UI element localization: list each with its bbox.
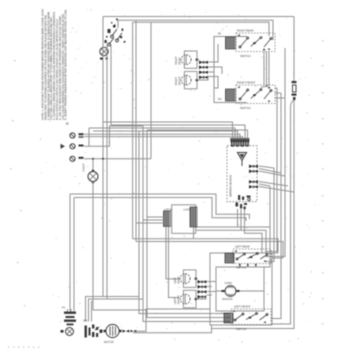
plug stem — [241, 161, 243, 167]
wire right bus 4 — [265, 168, 274, 262]
wire bundle 4 — [143, 126, 231, 322]
element lamp left front — [180, 290, 197, 308]
wire cn4 out 2 — [207, 286, 212, 288]
svg-text:LOCK: LOCK — [184, 208, 191, 212]
wire cn1 out 3 — [209, 71, 215, 73]
wire bundle h1 drop — [88, 128, 90, 146]
svg-text:P1: P1 — [62, 306, 66, 310]
junction dot — [263, 49, 265, 51]
wire asm2 link 2 — [275, 92, 281, 94]
wire stack feed b — [70, 309, 72, 312]
element coil right front — [226, 89, 236, 101]
fuse link F1 — [292, 81, 297, 100]
wire riser — [110, 44, 112, 125]
wire lamp link 3 — [196, 278, 198, 280]
infinite switch S3 left rear — [233, 249, 271, 264]
wire lamp link 2 — [197, 76, 208, 80]
svg-text:SWITCH: SWITCH — [240, 106, 251, 110]
wire L2 riser — [150, 22, 152, 159]
junction dot — [268, 87, 270, 89]
indicator lamp DS2 — [61, 328, 74, 336]
wire cn1 out 2 — [209, 67, 223, 74]
connector CN3 pins — [249, 180, 258, 189]
wire bundle h2 — [93, 131, 238, 146]
solenoid coil L2 lock — [190, 207, 197, 227]
wire left bus B — [106, 45, 108, 299]
wire right bus 3 — [265, 48, 285, 257]
wire bottom link — [133, 325, 212, 333]
wire right bus 5 — [264, 186, 270, 267]
svg-text:FRONT: FRONT — [176, 295, 180, 304]
junction dot — [102, 158, 104, 160]
wire block out 2 right — [241, 230, 266, 253]
wire fan 3 — [259, 171, 285, 176]
wiring block header bar — [230, 138, 250, 139]
wire door stair 1 — [86, 297, 140, 322]
wire latch to lamp 2 — [169, 227, 180, 298]
svg-text:REAR: REAR — [177, 57, 181, 64]
svg-text:SWITCH: SWITCH — [240, 54, 251, 58]
wiring block P3 outline — [227, 146, 257, 202]
wire L1 right drop — [293, 17, 295, 82]
svg-text:SWITCH: SWITCH — [236, 327, 246, 331]
junction dots at block pins — [232, 145, 248, 147]
svg-text:LIGHT: LIGHT — [82, 163, 86, 172]
convection motor M1 — [104, 324, 122, 337]
wire loop 1 drop — [69, 194, 71, 311]
wire series link 2 — [266, 52, 268, 86]
wire terminal L1 b — [84, 137, 243, 146]
wire lamp link 1 — [197, 59, 199, 61]
label RIGHT REAR — [174, 56, 181, 64]
wire L2 second run — [118, 20, 273, 40]
wire cn4 out 3 — [207, 291, 216, 293]
wire loop 2 drop — [73, 198, 75, 312]
wire L1 top run — [103, 16, 294, 18]
wire right bus 1 — [265, 88, 277, 252]
wire terminal N — [84, 126, 143, 146]
wire bundle 1 — [132, 22, 134, 238]
door switch cluster — [85, 325, 103, 338]
infinite switch S2 right front — [236, 85, 275, 104]
svg-text:SW: SW — [83, 319, 88, 323]
svg-text:FRONT: FRONT — [177, 76, 181, 85]
wire breaker feed — [117, 20, 119, 28]
wire L1 outer wrap — [212, 100, 295, 329]
wire right bus 2 — [271, 93, 281, 319]
connector pair bowtie 2 — [131, 330, 137, 333]
connector CN1 pins — [199, 61, 208, 80]
wire lock out — [193, 227, 195, 239]
wire series link 1 — [263, 52, 265, 86]
label LEFT FRONT — [173, 295, 180, 304]
wire door stair 2 — [89, 299, 144, 322]
junction dot — [92, 158, 94, 160]
wiring block pin row — [232, 141, 249, 147]
wire bundle h1 — [89, 128, 235, 146]
wire bundle h3 — [103, 122, 233, 146]
wire fan 5 — [259, 184, 270, 186]
latch box outline — [172, 205, 196, 234]
element coil left front — [224, 313, 233, 323]
svg-text:SENSOR: SENSOR — [222, 298, 233, 301]
wire latch feed 2 — [143, 219, 164, 221]
wire latch feed 3 — [136, 222, 164, 224]
wire left bus A — [102, 17, 104, 297]
svg-text:LEFT FRONT: LEFT FRONT — [234, 305, 251, 309]
terminal ticks — [239, 264, 257, 266]
wire cn1 out 1 — [209, 44, 219, 62]
wire bottom long 1 tail — [272, 252, 278, 254]
wire lamp link 4 — [196, 296, 206, 299]
wire block out 3 — [245, 209, 263, 253]
wire N third run — [133, 22, 269, 36]
notes text block — [41, 8, 68, 120]
infinite switch S1 right rear — [236, 33, 275, 52]
connector CN4 pins — [198, 280, 207, 299]
infinite switch S4 left front — [231, 309, 271, 325]
wire right border jog lower — [271, 100, 294, 324]
svg-text:MOTOR: MOTOR — [104, 340, 114, 344]
wire lamp to motor row — [93, 182, 146, 311]
wire lamp feed — [92, 159, 94, 171]
connector pair bowtie 1 — [123, 330, 130, 333]
terminal stack TS1 — [64, 312, 76, 326]
wire cn1 out 4 — [209, 77, 219, 89]
wire sensor left — [216, 290, 222, 292]
terminal block TB L2 — [70, 156, 84, 161]
pilot lamp PL1 — [100, 47, 108, 59]
wire sensor right — [240, 290, 265, 292]
label RIGHT FRONT — [174, 76, 181, 85]
svg-text:BK: BK — [218, 33, 222, 36]
wire door stair 3 — [92, 302, 94, 322]
wire bundle 2 — [135, 20, 137, 241]
svg-text:OVEN: OVEN — [225, 281, 232, 285]
wire fan 4 — [259, 182, 288, 187]
terminal block TB L1 — [70, 133, 84, 138]
wire motor to oven loop — [137, 309, 211, 331]
wire loop 2 staircase — [74, 198, 246, 222]
lower oven enclosure inner — [216, 267, 264, 311]
element coil right rear — [226, 37, 236, 49]
wire fan 6 — [259, 187, 294, 193]
lower oven enclosure outer — [210, 253, 272, 325]
svg-text:RD: RD — [218, 98, 222, 101]
svg-text:RIGHT FRONT: RIGHT FRONT — [237, 81, 256, 85]
wire series link 3 — [261, 52, 269, 88]
wire loop 1 staircase — [70, 194, 249, 219]
wire asm2 link 1 — [275, 87, 277, 89]
terminal block TB N — [70, 144, 84, 149]
element coil left rear — [225, 253, 234, 263]
scan speckle — [40, 8, 315, 342]
wire bundle 5 — [147, 130, 231, 318]
wire bracket — [214, 37, 247, 103]
junction dot — [266, 85, 268, 87]
wire cn4 out 4 — [207, 294, 212, 296]
wire fan 1 — [259, 166, 274, 168]
wire bottom long 1 — [133, 239, 278, 253]
element lamp left rear — [180, 270, 197, 288]
plug triangle P3 — [238, 153, 247, 161]
wire latch feed 1 — [147, 216, 164, 218]
wire bottom long 2 — [136, 242, 283, 259]
ground symbol — [61, 144, 66, 149]
wire block out 2 — [196, 209, 241, 230]
wire block out 1 right — [238, 227, 271, 253]
margin dots — [8, 40, 323, 348]
wire terminal L1 a — [84, 134, 240, 146]
label LEFT REAR — [173, 276, 180, 283]
svg-text:WIRING BLOCK: WIRING BLOCK — [229, 175, 233, 197]
wire block out 1 — [196, 209, 238, 227]
wire cn4 out 1 — [207, 281, 216, 283]
wire bundle h4 — [111, 125, 245, 146]
wire terminal L2 — [84, 158, 151, 160]
svg-text:REAR: REAR — [176, 276, 180, 283]
svg-text:LATCH: LATCH — [164, 208, 172, 212]
oven sensor probe — [222, 286, 240, 297]
breaker speckle — [106, 19, 126, 43]
wire asm2 link 3 — [275, 97, 285, 99]
element lamp right front — [181, 72, 198, 89]
svg-text:5. VERIFY PROPER OPERATION AFT: 5. VERIFY PROPER OPERATION AFTER SERVICI… — [64, 9, 68, 120]
wire stack feed a — [67, 309, 69, 312]
wiring block bottom component — [236, 195, 251, 209]
oven lamp DS1 — [88, 170, 98, 184]
svg-text:LEFT REAR: LEFT REAR — [235, 245, 250, 249]
element lamp right rear — [181, 51, 198, 68]
solenoid coil L1 latch — [164, 211, 171, 227]
wire fan 2 — [259, 169, 281, 174]
wire bottom long 2 tail — [272, 257, 283, 259]
wire bundle h5 — [147, 130, 248, 146]
wire latch to lamp 1 — [166, 227, 180, 279]
svg-text:SWITCH: SWITCH — [236, 266, 246, 270]
svg-text:RIGHT REAR: RIGHT REAR — [237, 29, 254, 33]
thermal breaker cluster TB1 — [108, 24, 122, 46]
wire bundle 3 — [139, 131, 231, 314]
connector CN2 pins — [249, 165, 258, 174]
